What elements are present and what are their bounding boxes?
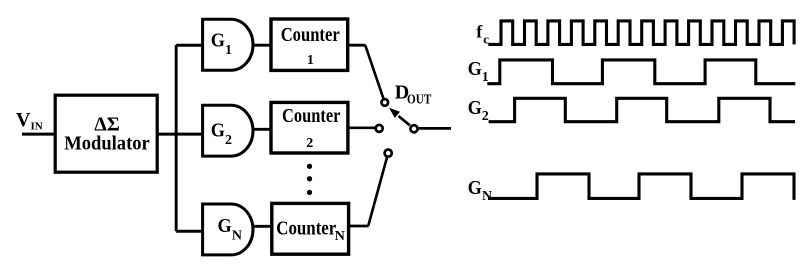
svg-text:G: G: [468, 97, 483, 119]
wire branch to GN: [176, 230, 203, 233]
svg-text:Counter: Counter: [282, 105, 340, 127]
switch contact node top: [382, 99, 389, 106]
svg-text:1: 1: [307, 53, 314, 68]
svg-text:Counter: Counter: [281, 24, 340, 46]
svg-text:G: G: [218, 215, 233, 237]
AND gate GN: [203, 204, 253, 255]
switch pole node: [410, 125, 417, 132]
svg-text:2: 2: [225, 133, 232, 148]
svg-text:Counter: Counter: [276, 218, 336, 240]
wire VIN input: [22, 133, 56, 136]
wire G2 to counter2: [253, 128, 272, 131]
wire counter1 output: [348, 44, 366, 47]
AND gate G1: [203, 19, 253, 70]
wire G1 to counter1: [253, 44, 272, 47]
wire GN to counterN: [253, 225, 272, 228]
svg-text:Modulator: Modulator: [64, 132, 150, 154]
wire branch to G1: [176, 44, 203, 47]
svg-text:N: N: [482, 189, 492, 204]
svg-text:G: G: [211, 119, 226, 141]
waveform G2 trace: [489, 98, 795, 121]
counter 2 block: [271, 102, 348, 153]
wire vertical bus: [175, 45, 178, 231]
switch contact node middle: [376, 125, 383, 132]
switch contact node bottom: [385, 150, 392, 157]
svg-text:2: 2: [482, 109, 489, 124]
wire counter2 to switch contact: [348, 126, 376, 129]
svg-text:1: 1: [225, 43, 232, 58]
svg-text:N: N: [335, 229, 345, 244]
svg-text:G: G: [468, 58, 483, 80]
switch wiper arrow: [399, 116, 410, 125]
waveform fc clock trace: [488, 21, 794, 45]
wire diagonal to top switch contact: [365, 45, 384, 99]
delta-sigma modulator block U1: [55, 95, 157, 172]
wire diagonal to bottom switch contact: [368, 157, 387, 226]
wire DOUT output: [419, 127, 451, 130]
svg-text:2: 2: [306, 136, 313, 151]
counter N block: [272, 203, 349, 254]
wire counterN output: [349, 225, 369, 228]
svg-text:G: G: [211, 30, 226, 52]
AND gate G2: [203, 105, 253, 156]
waveform G1 trace: [487, 60, 795, 84]
svg-text:OUT: OUT: [407, 93, 432, 108]
waveform GN trace: [488, 174, 794, 200]
svg-text:G: G: [468, 177, 483, 199]
counter 1 block: [271, 19, 348, 70]
ellipsis dots between counter2 and counterN: [307, 164, 312, 195]
wire modulator output to gate G2: [157, 133, 203, 136]
svg-text:N: N: [232, 229, 242, 244]
